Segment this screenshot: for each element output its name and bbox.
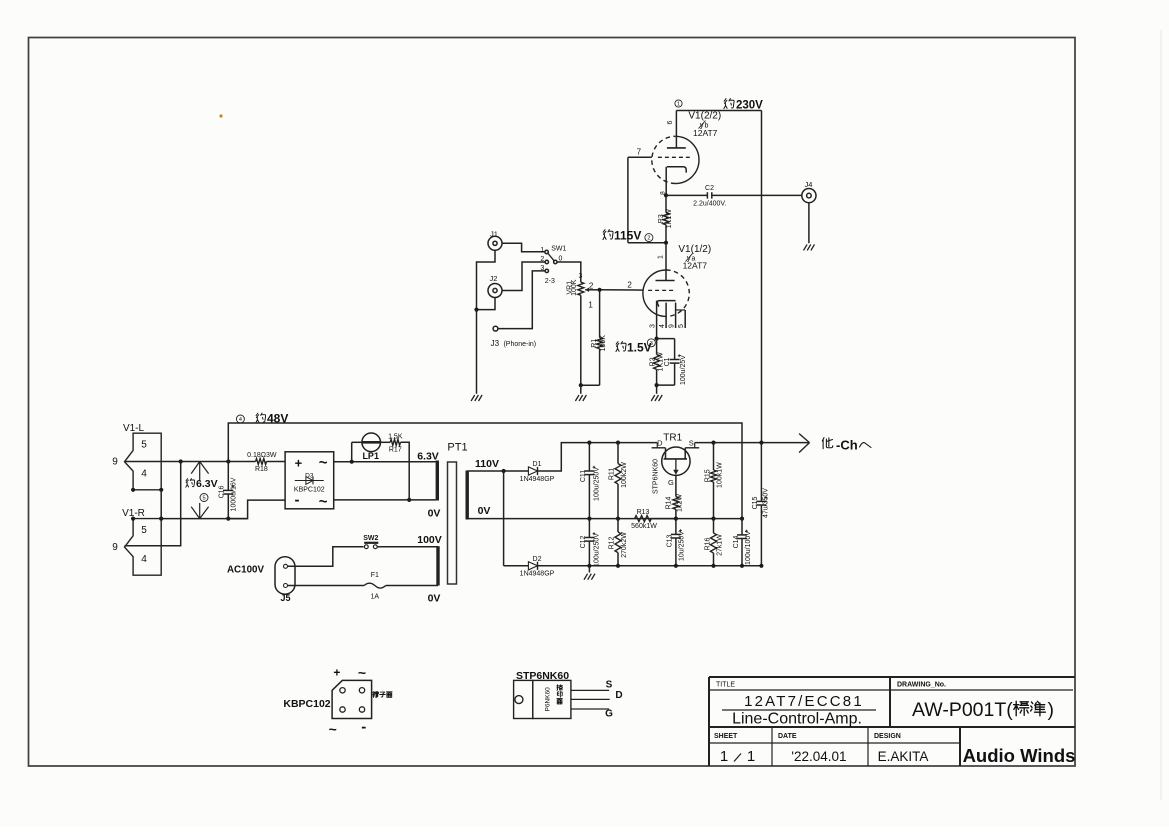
svg-text:SW1: SW1 <box>551 246 566 253</box>
connector J5 <box>275 557 295 603</box>
tube V1(1/2) grid <box>600 289 675 292</box>
switch SW2 <box>363 535 438 549</box>
package STP6NK60 label <box>516 670 569 682</box>
resistor R1 labels <box>591 335 607 352</box>
wire D2 branch <box>504 471 529 566</box>
node 110V junction <box>502 469 506 473</box>
svg-text:0V: 0V <box>428 508 441 520</box>
label 0V secondary <box>478 505 491 517</box>
capacitor C11 <box>584 443 595 519</box>
title block label TITLE <box>716 682 735 689</box>
node R11 bottom junction <box>616 517 620 521</box>
bridge rectifier D3 symbol <box>294 472 325 493</box>
node cathode V1(1/2) junction <box>655 337 659 341</box>
heater V1-R label <box>122 508 145 519</box>
node R15 top junction <box>711 441 715 445</box>
svg-text:100K: 100K <box>571 279 578 296</box>
node V1-L bottom corners <box>131 488 163 492</box>
wire J4 ground drop <box>808 203 810 244</box>
svg-text:R3: R3 <box>658 214 665 223</box>
title text Line-Control-Amp. <box>732 711 862 728</box>
svg-text:AW-P001T(: AW-P001T( <box>912 699 1013 721</box>
potentiometer VR1 wiper <box>585 288 599 292</box>
svg-text:100u/25V: 100u/25V <box>680 355 687 385</box>
lamp LP1 <box>352 433 381 462</box>
svg-text:+: + <box>333 666 340 680</box>
svg-text:100u/250V: 100u/250V <box>593 467 600 501</box>
sheet number 1/1 <box>720 748 755 765</box>
tube V1(1/2) heater pins <box>666 303 685 328</box>
svg-text:'22.04.01: '22.04.01 <box>791 749 846 764</box>
wire 110V secondary <box>467 470 528 472</box>
svg-text:C11: C11 <box>580 470 587 482</box>
transformer PT1 100V winding bar <box>436 546 439 585</box>
svg-text:100u/100V: 100u/100V <box>745 531 752 565</box>
tube V1(1/2) label <box>678 244 711 271</box>
svg-text:1: 1 <box>747 748 755 765</box>
ground J4 <box>804 244 815 250</box>
node VR1 ground junction <box>579 383 583 387</box>
svg-text:4: 4 <box>659 324 666 328</box>
ground power supply <box>584 574 595 580</box>
wire cathode ground stub <box>656 385 658 394</box>
svg-text:E.AKITA: E.AKITA <box>878 749 929 764</box>
svg-text:D: D <box>615 690 622 701</box>
resistor R17 labels <box>388 434 403 454</box>
svg-text:4: 4 <box>141 554 147 565</box>
node input ground junction <box>474 308 478 312</box>
svg-text:R18: R18 <box>255 466 268 473</box>
capacitor C13 labels <box>666 531 685 561</box>
node grid junction <box>598 288 602 292</box>
svg-text:): ) <box>1048 699 1055 721</box>
label AC100V <box>227 565 264 576</box>
svg-text:9: 9 <box>112 542 118 553</box>
capacitor C15 <box>756 443 767 566</box>
svg-text:P6NK60: P6NK60 <box>545 687 552 712</box>
svg-text:J3: J3 <box>491 339 500 348</box>
svg-text:1000u/16V: 1000u/16V <box>231 477 238 511</box>
transformer PT1 core <box>448 462 457 584</box>
svg-text:-Ch: -Ch <box>836 438 858 453</box>
input jack J2 <box>488 274 502 298</box>
resistor R3 <box>663 195 669 242</box>
node C12 bottom junction <box>587 564 591 568</box>
svg-text:PT1: PT1 <box>447 442 467 454</box>
svg-text:R13: R13 <box>637 509 650 516</box>
ground cathode circuit <box>651 395 662 401</box>
capacitor C2 labels <box>693 185 726 208</box>
wire B+ vertical drop <box>761 111 763 443</box>
svg-text:5: 5 <box>202 496 205 502</box>
svg-text:1k2W: 1k2W <box>677 494 684 512</box>
label approx 6.3V measure arrow <box>186 462 218 519</box>
svg-text:G: G <box>605 709 613 720</box>
resistor R2 labels <box>649 352 664 371</box>
wire bridge ac bottom lead <box>334 499 436 501</box>
tube V1(1/2) plate <box>656 280 675 282</box>
switch SW1 <box>540 246 566 285</box>
heater block V1-R <box>125 519 162 576</box>
resistor R14 labels <box>666 494 684 512</box>
svg-text:4: 4 <box>239 417 242 423</box>
package KBPC102 label <box>283 698 330 710</box>
drawing frame <box>29 38 1076 767</box>
resistor R11 labels <box>609 462 628 488</box>
svg-text:9: 9 <box>668 324 675 328</box>
svg-text:-: - <box>361 719 366 736</box>
svg-text:5: 5 <box>141 525 147 536</box>
node R11 top junction <box>616 441 620 445</box>
heater V1-L label <box>123 423 145 434</box>
svg-text:C15: C15 <box>752 496 759 509</box>
fuse F1 <box>364 572 438 601</box>
resistor R15 <box>711 443 717 519</box>
svg-text:AC100V: AC100V <box>227 565 264 576</box>
package KBPC102 outline <box>332 680 372 718</box>
node R12 bottom junction <box>616 564 620 568</box>
svg-text:2: 2 <box>627 280 632 289</box>
svg-text:V1(2/2): V1(2/2) <box>688 110 721 121</box>
label J3 Phone-in <box>491 339 537 348</box>
bridge rectifier D3 terminals <box>295 455 328 511</box>
svg-text:2: 2 <box>589 282 594 291</box>
wire 115V to plate <box>665 243 667 281</box>
node R17 bottom junction <box>407 498 411 502</box>
capacitor C16 <box>223 462 234 519</box>
svg-text:100V: 100V <box>417 534 442 546</box>
heater V1-L pin labels <box>112 440 147 480</box>
svg-text:R16: R16 <box>705 537 712 550</box>
svg-text:KBPC102: KBPC102 <box>283 698 330 710</box>
svg-text:2-3: 2-3 <box>545 278 555 285</box>
svg-text:1: 1 <box>588 301 593 310</box>
svg-text:SW2: SW2 <box>363 535 378 542</box>
resistor R17 <box>381 439 410 500</box>
svg-text:1: 1 <box>720 748 728 765</box>
package STP6NK60 leads <box>571 690 610 709</box>
svg-text:100k2W: 100k2W <box>621 462 628 488</box>
capacitor C1 labels <box>664 355 687 385</box>
tube V1(1/2) pin labels 3 4 9 5 <box>649 324 685 328</box>
package KBPC102 pins <box>340 688 365 713</box>
svg-text:0.18Ω3W: 0.18Ω3W <box>247 452 277 459</box>
tube V1(2/2) envelope <box>652 136 699 183</box>
svg-text:R1: R1 <box>591 339 598 348</box>
wire filter ground stub <box>588 566 590 573</box>
node C13 bottom junction <box>674 564 678 568</box>
svg-text:5: 5 <box>678 324 685 328</box>
wire bridge ac top lead <box>334 461 436 463</box>
svg-text:G: G <box>668 478 674 487</box>
svg-text:4: 4 <box>141 469 147 480</box>
wire J2 to SW1 pin2 <box>502 262 545 291</box>
wire J1 ground branch <box>477 250 496 309</box>
svg-text:1: 1 <box>658 255 665 259</box>
svg-text:SHEET: SHEET <box>714 733 738 740</box>
svg-text:5: 5 <box>141 440 147 451</box>
svg-text:2.2u/400V.: 2.2u/400V. <box>693 201 726 208</box>
label to other channel <box>822 438 871 453</box>
svg-text:TITLE: TITLE <box>716 682 735 689</box>
svg-text:7: 7 <box>637 148 642 157</box>
svg-text:6.3V: 6.3V <box>417 450 439 462</box>
svg-text:R14: R14 <box>666 496 673 509</box>
resistor R15 labels <box>705 462 724 488</box>
wire J3 to SW1 pin3 <box>498 271 545 329</box>
svg-text:1.5K: 1.5K <box>388 434 403 441</box>
svg-text:+: + <box>295 456 303 471</box>
wire grid feedback to 115V node <box>628 157 666 242</box>
capacitor C16 labels <box>218 477 237 511</box>
package STP6NK60 marking <box>545 685 563 712</box>
transformer PT1 label <box>447 442 467 454</box>
svg-text:3: 3 <box>649 324 656 328</box>
svg-text:12AT7: 12AT7 <box>693 128 718 138</box>
package KBPC102 polarity labels <box>329 665 367 738</box>
input jack J3 <box>493 326 498 331</box>
capacitor C14 <box>737 519 748 566</box>
node R14 bottom junction <box>674 517 678 521</box>
package KBPC102 terminal side note <box>373 691 392 697</box>
capacitor C15 labels <box>752 488 769 518</box>
svg-text:110V: 110V <box>475 458 499 470</box>
svg-text:100u/250V: 100u/250V <box>593 533 600 567</box>
node R16 bottom junction <box>711 564 715 568</box>
wire J5 live to SW2 <box>288 547 364 567</box>
svg-text:Audio Winds: Audio Winds <box>963 745 1076 766</box>
title block <box>709 677 1075 766</box>
node C15 bottom junction <box>759 564 763 568</box>
svg-text:C13: C13 <box>666 534 673 547</box>
svg-text:C14: C14 <box>733 535 740 548</box>
label approx 1.5V node 3 <box>616 339 655 355</box>
node C15 top junction <box>759 441 763 445</box>
wire J5 neutral to fuse <box>288 585 365 587</box>
tube V1(2/2) pin 8 <box>659 191 666 195</box>
svg-text:S: S <box>689 439 694 448</box>
wire VR1 ground stub <box>580 385 582 394</box>
svg-text:1K1W: 1K1W <box>666 209 673 228</box>
wire SW1 common to VR1 <box>557 262 581 273</box>
title text 12AT7/ECC81 <box>744 693 864 710</box>
capacitor C12 <box>584 519 595 566</box>
svg-text:TR1: TR1 <box>663 433 682 444</box>
svg-text:0V: 0V <box>478 505 491 517</box>
svg-text:STP6NK60: STP6NK60 <box>652 459 659 494</box>
svg-text:27k1W: 27k1W <box>716 534 723 556</box>
svg-text:V1(1/2): V1(1/2) <box>678 244 711 255</box>
svg-text:DRAWING_No.: DRAWING_No. <box>897 682 946 689</box>
diode D2 <box>520 556 555 578</box>
date '22.04.01 <box>791 749 846 764</box>
transformer PT1 6.3V winding bar <box>436 461 439 501</box>
ground volume control <box>575 395 586 401</box>
svg-text:1: 1 <box>540 247 544 254</box>
resistor R1 <box>597 290 603 385</box>
svg-text:~: ~ <box>319 455 328 472</box>
tube V1(2/2) grid <box>628 156 690 158</box>
capacitor C2 <box>666 192 802 198</box>
svg-text:S: S <box>606 680 613 691</box>
svg-text:1.5V: 1.5V <box>627 341 652 355</box>
capacitor C12 labels <box>580 533 600 567</box>
svg-text:47u/350V: 47u/350V <box>762 488 769 518</box>
wire V1-L to V1-R series <box>160 490 162 519</box>
wire B+ rail right segment <box>695 442 810 444</box>
svg-text:C16: C16 <box>218 485 225 498</box>
svg-text:V1-L: V1-L <box>123 423 145 434</box>
designer E.AKITA <box>878 749 929 764</box>
node cathode junction <box>664 193 668 197</box>
resistor R16 labels <box>705 534 724 556</box>
heater block V1-L <box>125 433 162 490</box>
svg-text:6: 6 <box>667 120 674 124</box>
title separator line <box>722 709 876 711</box>
resistor R18 <box>256 459 286 465</box>
wire B+ rail left segment <box>589 442 657 444</box>
scan page edge <box>1160 30 1162 800</box>
transformer PT1 winding labels 100V 0V <box>417 534 442 605</box>
svg-text:-: - <box>295 492 300 509</box>
svg-text:12AT7/ECC81: 12AT7/ECC81 <box>744 693 864 710</box>
svg-text:3: 3 <box>540 265 544 272</box>
label approx 115V node 2 <box>603 229 653 243</box>
node V1-R top corners <box>131 517 163 521</box>
node C14 bottom junction <box>740 564 744 568</box>
svg-text:C2: C2 <box>705 185 714 192</box>
potentiometer VR1 <box>578 273 584 385</box>
wire VR1 R1 bottom <box>581 384 600 386</box>
potentiometer VR1 labels <box>566 279 593 309</box>
label 110V wire <box>475 458 499 470</box>
node C11 top junction <box>587 441 591 445</box>
svg-text:DATE: DATE <box>778 733 797 740</box>
capacitor C1 <box>657 339 681 386</box>
svg-text:J2: J2 <box>490 274 498 283</box>
svg-text:D: D <box>657 439 663 448</box>
svg-text:6.3V: 6.3V <box>196 478 218 490</box>
title block label SHEET <box>714 733 738 740</box>
capacitor C14 labels <box>733 531 752 565</box>
svg-text:C1: C1 <box>664 357 671 366</box>
svg-text:(Phone-in): (Phone-in) <box>503 341 536 348</box>
resistor R11 <box>615 443 621 519</box>
tube V1(1/2) pin 2 <box>627 280 632 289</box>
node 115V junction <box>664 241 668 245</box>
title block label DRAWING_No. <box>897 682 946 689</box>
svg-text:115V: 115V <box>614 229 641 243</box>
resistor R13 labels <box>631 509 657 530</box>
svg-text:R15: R15 <box>705 469 712 482</box>
paper speck <box>219 114 222 117</box>
svg-text:1A: 1A <box>371 594 380 601</box>
svg-text:Line-Control-Amp.: Line-Control-Amp. <box>732 711 862 728</box>
svg-text:230V: 230V <box>736 100 763 112</box>
svg-text:1: 1 <box>677 102 680 108</box>
svg-text:~: ~ <box>319 494 328 511</box>
tube V1(1/2) pin 1 <box>658 255 665 259</box>
tube V1(2/2) pin 6 <box>667 120 674 124</box>
resistor R16 <box>711 519 717 566</box>
tube V1(1/2) envelope <box>643 270 689 316</box>
svg-text:100k1W: 100k1W <box>716 462 723 488</box>
svg-text:9: 9 <box>112 457 118 468</box>
diode D1 <box>520 461 555 483</box>
node 1 circled marker <box>675 100 682 108</box>
ground input jacks <box>471 395 482 401</box>
tube V1(2/2) plate <box>667 111 686 148</box>
wire J1 to SW1 pin1 <box>502 243 545 252</box>
label node 4 approx 48V <box>236 412 288 426</box>
output jack J4 <box>802 180 816 203</box>
resistor R12 <box>615 519 621 566</box>
svg-text:R11: R11 <box>609 468 616 480</box>
bridge rectifier D3 box <box>285 452 334 509</box>
node R15 bottom junction <box>711 517 715 521</box>
svg-text:R2: R2 <box>649 357 656 366</box>
package STP6NK60 outline <box>514 680 571 718</box>
svg-text:J4: J4 <box>805 180 813 189</box>
wire bottom rail <box>538 565 762 567</box>
svg-text:R17: R17 <box>389 447 402 454</box>
wire J2 ground branch <box>477 298 496 310</box>
wire 48V rail <box>228 423 742 519</box>
svg-text:270k2W: 270k2W <box>621 532 628 558</box>
node C11 mid junction <box>587 517 591 521</box>
svg-text:1N4948GP: 1N4948GP <box>520 571 555 578</box>
mosfet TR1 <box>652 439 700 497</box>
heater V1-R pin labels <box>112 525 147 565</box>
label approx 230V <box>724 99 763 112</box>
wire D1 to B+ rail <box>538 443 590 471</box>
svg-text:100K: 100K <box>600 335 607 352</box>
company Audio Winds <box>963 745 1076 766</box>
svg-text:DESIGN: DESIGN <box>874 733 901 740</box>
arrow to other channel <box>799 434 809 453</box>
tube V1(2/2) pin 7 <box>637 148 642 157</box>
resistor R12 labels <box>609 532 628 558</box>
svg-text:R12: R12 <box>609 536 616 549</box>
node R2 C1 bottom junction <box>655 383 659 387</box>
svg-text:KBPC102: KBPC102 <box>294 487 325 494</box>
package STP6NK60 lead labels S D G <box>605 680 623 720</box>
capacitor C11 labels <box>580 467 600 501</box>
svg-text:J5: J5 <box>280 593 290 603</box>
node V1-L tap junction <box>179 459 183 463</box>
wire input ground drop <box>476 310 478 394</box>
tube V1(2/2) cathode <box>666 167 686 196</box>
wire plate supply top <box>676 110 761 112</box>
wire bridge minus lead <box>228 500 285 518</box>
resistor R13 <box>635 516 676 522</box>
svg-text:2: 2 <box>540 256 544 263</box>
mosfet TR1 type label <box>652 459 674 494</box>
svg-text:LP1: LP1 <box>362 451 379 461</box>
node lamp branch junction <box>350 460 354 464</box>
node C14 top junction <box>740 517 744 521</box>
svg-text:12AT7: 12AT7 <box>683 261 708 271</box>
tube V1(1/2) cathode <box>657 301 676 339</box>
resistor R3 labels <box>658 209 673 228</box>
svg-text:~: ~ <box>329 721 337 737</box>
transformer PT1 secondary bar <box>466 471 469 520</box>
node heater 48V takeoff junction <box>226 459 230 463</box>
svg-text:~: ~ <box>358 665 366 681</box>
transformer PT1 winding labels 6.3V 0V <box>417 450 440 519</box>
svg-text:2: 2 <box>647 236 650 242</box>
resistor R14 <box>673 497 679 519</box>
